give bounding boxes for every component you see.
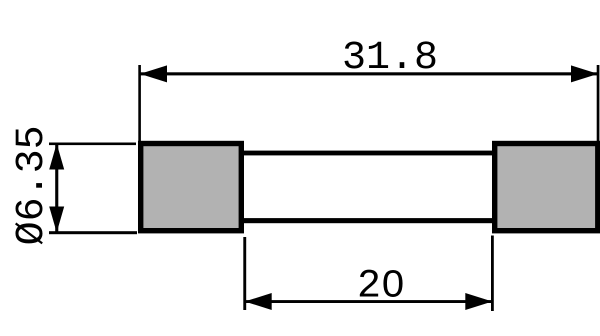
glass body bottom line bbox=[244, 218, 492, 223]
arrowhead right (31.8) bbox=[571, 65, 598, 82]
dimension line 6.35 (vertical) bbox=[55, 144, 58, 233]
svg-text:Ø6.35: Ø6.35 bbox=[10, 125, 55, 245]
arrowhead left (20) bbox=[245, 293, 272, 310]
arrowhead down (6.35) bbox=[49, 207, 64, 233]
arrowhead right (20) bbox=[465, 293, 492, 310]
right end cap bbox=[495, 144, 598, 231]
glass body top line bbox=[244, 151, 492, 156]
extension line right (20) bbox=[491, 236, 494, 312]
dimension line 20 (bottom) bbox=[245, 300, 493, 303]
extension line top (dia 6.35) bbox=[49, 143, 136, 146]
left end cap bbox=[141, 144, 242, 231]
dimension line 31.8 (top) bbox=[140, 72, 598, 75]
extension line right (31.8) bbox=[597, 65, 600, 141]
extension line bottom (dia 6.35) bbox=[49, 231, 137, 234]
arrowhead up (6.35) bbox=[49, 144, 64, 170]
svg-text:20: 20 bbox=[357, 265, 405, 310]
svg-text:31.8: 31.8 bbox=[342, 36, 438, 81]
arrowhead left (31.8) bbox=[140, 65, 167, 82]
extension line left (20) bbox=[243, 237, 246, 310]
extension line left (31.8) bbox=[138, 65, 141, 141]
